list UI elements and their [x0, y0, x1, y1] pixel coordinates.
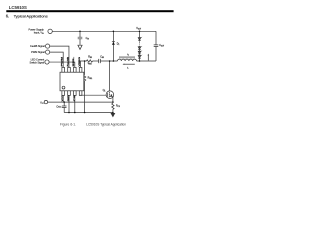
- svg-text:RSEL: RSEL: [88, 77, 93, 80]
- svg-text:RCS: RCS: [116, 105, 120, 108]
- terminal VCC: [44, 100, 47, 103]
- inductor L1: [118, 59, 137, 61]
- svg-text:VCC: VCC: [62, 95, 64, 102]
- svg-text:GND: GND: [68, 95, 70, 102]
- svg-text:CS: CS: [74, 94, 76, 101]
- wire L1 to LED/COUT: [137, 60, 157, 62]
- LED D3: [138, 47, 141, 50]
- pin GND bottom 2: [68, 91, 71, 96]
- resistor RCS: [112, 103, 114, 109]
- svg-text:L1: L1: [127, 54, 129, 56]
- diode D1 vertical: [112, 31, 114, 61]
- LED D2: [138, 38, 141, 41]
- switch node wire / chain from pin4: [81, 61, 87, 67]
- component labels: [56, 27, 164, 109]
- wire VCC sense: [48, 101, 113, 103]
- LED D4: [138, 51, 141, 54]
- svg-text:PWM Signal: PWM Signal: [31, 50, 45, 54]
- wire PWM to pin: [50, 52, 64, 67]
- inductor core bars: [119, 57, 135, 58]
- svg-text:Figure 6-1.: Figure 6-1.: [60, 122, 76, 126]
- LED D5: [138, 56, 141, 59]
- svg-text:Q1: Q1: [103, 89, 106, 92]
- svg-text:CBS: CBS: [100, 55, 104, 58]
- junction Q1 source / RCS top: [112, 101, 114, 103]
- terminal VIN (Power Supply Input): [48, 29, 52, 33]
- LED emission arrows: [141, 37, 142, 56]
- pin PWM top 1: [62, 67, 65, 72]
- svg-text:RBS: RBS: [88, 55, 92, 58]
- terminal PWM: [46, 50, 50, 54]
- ground arrow RCS: [111, 113, 115, 116]
- svg-text:CVCC: CVCC: [56, 105, 62, 108]
- svg-text:FaultB: FaultB: [66, 56, 69, 66]
- junction GND pin2 on rail: [68, 112, 70, 114]
- junction CVCC top: [63, 101, 65, 103]
- pin SEL top 3: [74, 67, 77, 72]
- ground arrow CIN: [78, 45, 82, 49]
- LED string wire: [139, 31, 141, 61]
- capacitor CBS series: [99, 59, 101, 63]
- pin CS bottom 3: [74, 91, 77, 96]
- IC U1 body: [60, 72, 84, 91]
- svg-text:FaultB Signal: FaultB Signal: [30, 44, 45, 48]
- terminal FaultB: [46, 44, 50, 48]
- junction RSEL top: [84, 60, 86, 62]
- svg-text:D1: D1: [117, 43, 120, 46]
- resistor RBS inline zigzag: [87, 60, 93, 62]
- svg-text:Typical Applications: Typical Applications: [14, 14, 49, 19]
- capacitor CVCC: [62, 102, 67, 112]
- svg-text:COUT: COUT: [159, 44, 164, 47]
- junction LED string bottom: [139, 60, 141, 62]
- pin FaultB top 2: [68, 67, 71, 72]
- wire CBS to switch node: [100, 60, 117, 62]
- svg-text:LC5910S: LC5910S: [9, 5, 27, 10]
- junction RCS bottom on rail: [112, 112, 114, 114]
- wire CS pin3 down: [74, 95, 76, 112]
- junction D1 cathode on VIN rail: [113, 31, 115, 33]
- capacitor COUT branch: [154, 31, 159, 61]
- junction D1 anode switch node: [113, 60, 115, 62]
- diode D1 symbol: [112, 41, 115, 43]
- svg-text:LC5910S Typical Application: LC5910S Typical Application: [86, 122, 126, 126]
- wire SEL to pin: [49, 62, 75, 67]
- terminal LED current switch: [45, 60, 49, 64]
- ground rail: [64, 112, 113, 114]
- junction RSEL bottom on rail: [84, 112, 86, 114]
- wire GND pin2 down: [68, 95, 70, 112]
- inductor current arrow iL: [124, 63, 135, 65]
- junction Q1 drain switch node: [109, 60, 111, 62]
- capacitor CIN: [78, 31, 83, 45]
- svg-text:CIN: CIN: [86, 37, 89, 40]
- svg-text:VREG: VREG: [79, 57, 81, 67]
- svg-text:iL: iL: [127, 67, 128, 69]
- junction node VOUT: [139, 31, 141, 33]
- LED current arrow: [147, 55, 149, 61]
- IC pin1 dot: [62, 86, 65, 89]
- resistor RSEL vertical: [84, 61, 86, 75]
- pin OUT bottom 4: [79, 91, 82, 96]
- svg-text:VOUT: VOUT: [136, 27, 141, 30]
- junction pin3 on rail: [74, 112, 76, 114]
- header rule: [6, 10, 173, 12]
- svg-text:PWM: PWM: [62, 57, 64, 67]
- svg-text:Switch Signal: Switch Signal: [30, 60, 45, 64]
- transistor Q1 drain wire: [109, 61, 111, 91]
- wire VIN rail: [52, 30, 156, 32]
- junction CIN on VIN rail: [79, 31, 81, 33]
- wire VCC pin1 down: [62, 95, 64, 102]
- svg-text:SEL: SEL: [73, 56, 75, 67]
- pin VCC bottom 1: [62, 91, 65, 96]
- LED string dashed omission: [139, 42, 141, 46]
- wire FaultB to pin: [50, 46, 69, 67]
- svg-text:6.: 6.: [6, 14, 10, 19]
- pin VREG top 4: [79, 67, 82, 72]
- wire OUT gate: [81, 94, 107, 96]
- wire to CBS: [93, 60, 99, 62]
- transistor Q1: [106, 91, 114, 99]
- svg-text:VREG: VREG: [88, 63, 92, 65]
